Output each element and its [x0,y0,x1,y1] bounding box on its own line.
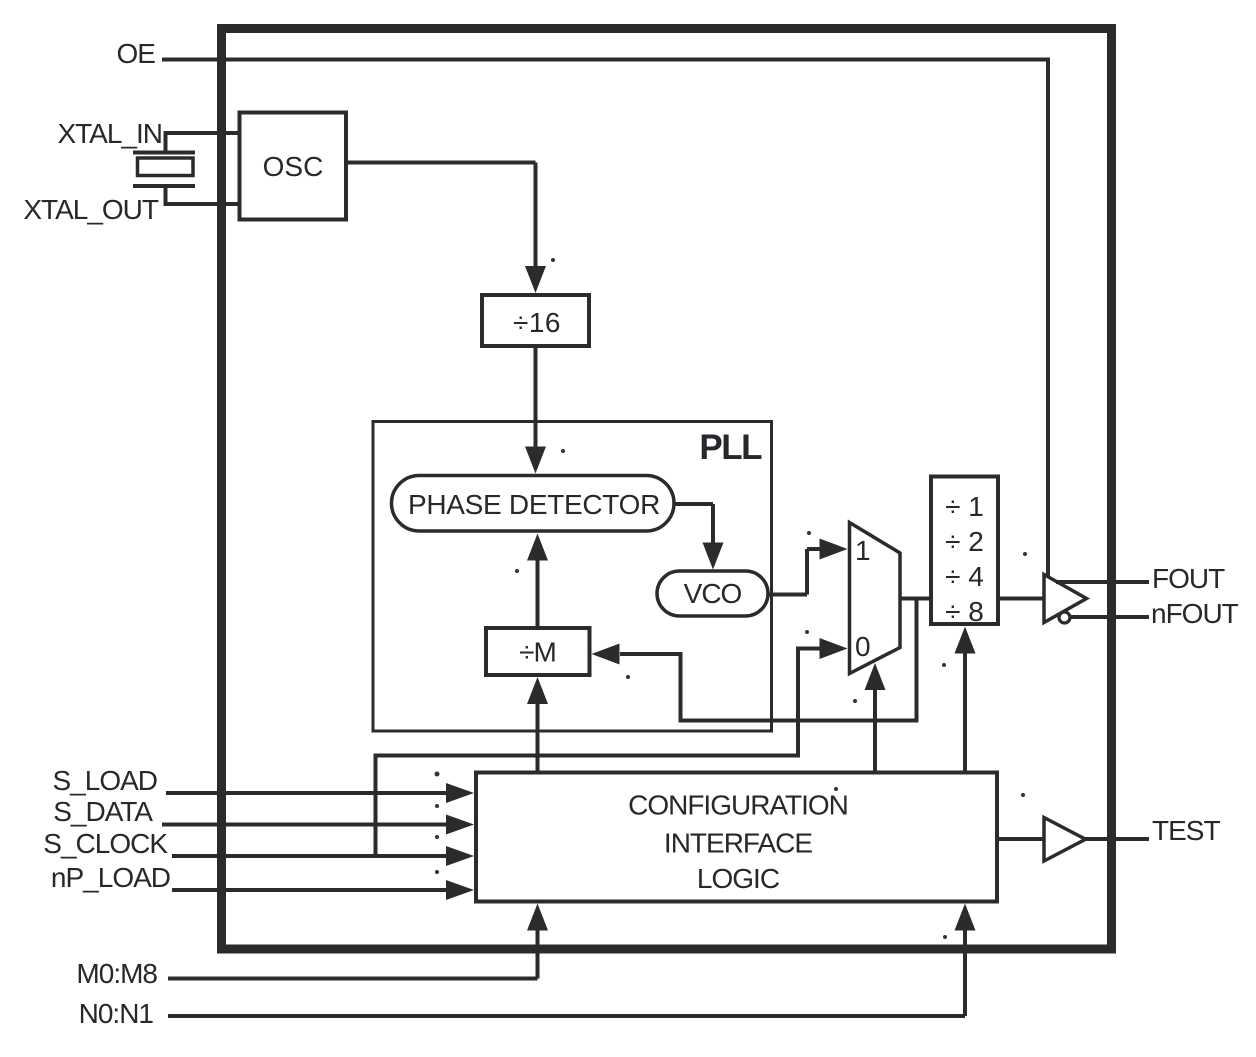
wire crystal to XTAL_OUT [164,186,239,206]
svg-text:N0:N1: N0:N1 [79,998,154,1029]
svg-text:INTERFACE: INTERFACE [664,828,812,859]
svg-text:M0:M8: M0:M8 [76,958,157,989]
arrow from divide-by-M up into phase detector [527,534,548,561]
wire N select from configuration logic to output divider [963,652,967,773]
arrow S_DATA into configuration logic [446,815,474,835]
wire feedback from mux output to divide-by-M [620,599,917,721]
wire output divider to output buffer [998,597,1044,601]
wire nP_LOAD input [172,888,448,892]
arrow into phase detector top [525,447,546,474]
arrow S_LOAD into configuration logic [446,783,474,803]
svg-text:CONFIGURATION: CONFIGURATION [628,790,848,821]
wire phase detector to VCO [674,504,713,544]
svg-text:÷ 2: ÷ 2 [945,526,984,557]
chip outer boundary [222,29,1112,950]
wire VCO output to mux input 1 [768,549,821,595]
block PHASE DETECTOR [392,476,675,532]
wire configuration logic to TEST buffer [997,837,1044,841]
svg-text:÷ 8: ÷ 8 [945,596,984,627]
wire S_DATA input [162,823,448,827]
svg-text:0: 0 [855,631,870,662]
output buffer triangle FOUT/nFOUT [1044,575,1087,623]
arrow into divide-by-16 [525,266,546,293]
svg-text:nP_LOAD: nP_LOAD [51,862,170,893]
wire M select from configuration logic to divide-by-M [536,702,540,773]
arrowheads [446,266,976,931]
block CONFIGURATION INTERFACE LOGIC [476,773,997,902]
block divide-by-M [486,628,590,675]
wire S_CLOCK tee to mux input 0 [376,649,822,857]
wire nFOUT output [1068,615,1149,619]
svg-text:OE: OE [117,38,156,69]
wire OSC output to divide-by-16 [346,163,536,269]
svg-text:÷16: ÷16 [513,307,561,338]
svg-text:XTAL_OUT: XTAL_OUT [23,194,159,225]
wire XTAL_IN to OSC [164,131,239,154]
arrow into mux input 1 [820,539,848,560]
arrow S_CLOCK into configuration logic [446,846,474,866]
arrow nP_LOAD into configuration logic [446,880,474,900]
svg-text:TEST: TEST [1152,815,1220,846]
crystal X1 body [138,158,194,176]
scan speck dots [435,258,1028,939]
svg-text:S_CLOCK: S_CLOCK [43,828,168,859]
arrow M select into divide-by-M bottom [527,677,548,704]
crystal X1 top plate [133,151,195,155]
svg-text:S_LOAD: S_LOAD [53,765,158,796]
svg-text:S_DATA: S_DATA [53,796,153,827]
wire divide-by-16 to phase detector [534,346,538,448]
arrow N0:N1 into configuration logic bottom [955,904,976,931]
wire OE horizontal and riser to output buffer [162,58,1048,578]
arrow M0:M8 into configuration logic bottom [527,904,548,931]
wire FOUT output [1056,580,1149,584]
arrow mux select into mux bottom [865,663,886,690]
svg-text:XTAL_IN: XTAL_IN [57,118,162,149]
svg-text:VCO: VCO [684,578,742,609]
block divide-by-16 [482,295,589,346]
mux trapezoid [850,523,901,674]
svg-text:÷ 1: ÷ 1 [945,491,984,522]
svg-text:÷ 4: ÷ 4 [945,561,984,592]
wire mux output to output divider [900,597,931,601]
svg-text:FOUT: FOUT [1152,563,1225,594]
wire N0:N1 bus [168,929,965,1016]
svg-text:PHASE DETECTOR: PHASE DETECTOR [408,489,660,520]
crystal X1 bottom plate [133,184,195,188]
arrow into VCO [703,543,724,570]
svg-text:÷M: ÷M [519,637,556,668]
PLL enclosure [373,422,772,732]
inversion bubble on nFOUT [1059,612,1070,623]
svg-text:1: 1 [855,535,870,566]
block VCO [657,571,768,616]
wire M0:M8 bus [168,929,538,979]
svg-text:PLL: PLL [699,428,762,467]
wire mux select from configuration logic [873,690,877,773]
wire S_CLOCK input [172,854,448,858]
arrow into mux input 0 [820,638,848,659]
svg-text:OSC: OSC [263,151,324,182]
arrow N select into output divider bottom [955,627,976,654]
TEST buffer triangle [1044,818,1086,862]
block OSC [240,113,347,220]
wire divide-by-M to phase detector [536,559,540,628]
svg-text:nFOUT: nFOUT [1151,598,1239,629]
block output divider [931,477,998,625]
svg-text:LOGIC: LOGIC [697,863,780,894]
arrow into divide-by-M right side [592,644,620,665]
wire TEST output [1085,837,1149,841]
wire S_LOAD input [166,791,448,795]
